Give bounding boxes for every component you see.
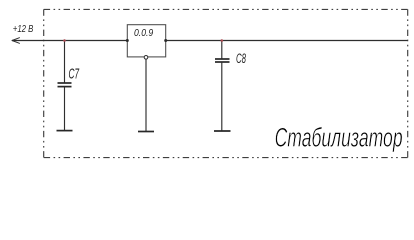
svg-text:Стабилизатор: Стабилизатор bbox=[275, 123, 403, 153]
svg-text:С7: С7 bbox=[69, 65, 80, 82]
svg-text:+12 В: +12 В bbox=[13, 23, 34, 34]
svg-text:С8: С8 bbox=[236, 52, 246, 67]
svg-text:0.0.9: 0.0.9 bbox=[134, 27, 154, 39]
